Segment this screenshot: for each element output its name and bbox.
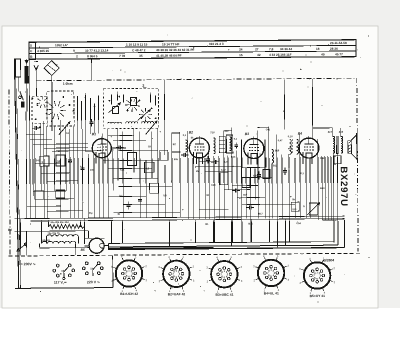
ground bus heavy segment — [109, 247, 214, 250]
RF coil L2 — [56, 155, 65, 166]
svg-text:24: 24 — [239, 47, 243, 51]
mid zone link wires horizontal — [258, 126, 269, 128]
svg-text:B19: B19 — [320, 187, 325, 190]
tube B4 UL41 — [299, 138, 319, 158]
capacitor C24 — [246, 207, 249, 209]
switch wafer SK4 — [45, 102, 48, 105]
resistor R9 — [263, 169, 270, 178]
heater wiring verticals — [19, 218, 21, 255]
svg-text:B4=UL 41: B4=UL 41 — [264, 291, 279, 295]
capacitor C7 — [32, 127, 35, 129]
resistor R5 — [160, 150, 168, 160]
svg-text:BX297U: BX297U — [338, 166, 349, 207]
svg-text:40 38 26 32 36 43 62 31 PF: 40 38 26 32 36 43 62 31 PF — [156, 48, 194, 52]
trimmer capacitor C6 — [81, 165, 83, 168]
inter-box capacitor — [91, 119, 93, 122]
svg-text:4,7k: 4,7k — [224, 161, 229, 164]
scanner background top band — [0, 0, 400, 26]
svg-text:35: 35 — [139, 54, 143, 58]
svg-text:mA: mA — [288, 147, 292, 150]
svg-text:B17: B17 — [258, 212, 263, 215]
svg-text:B2: B2 — [189, 130, 193, 134]
mid zone wires vertical — [198, 158, 200, 219]
svg-text:50μ: 50μ — [88, 212, 93, 215]
IF trim capacitor — [235, 143, 237, 145]
oscillator switch arm 1 — [108, 104, 119, 113]
tube socket view B3 — [211, 261, 238, 288]
svg-text:7 78: 7 78 — [119, 54, 125, 58]
scan speckle noise — [14, 33, 371, 305]
svg-text:B/2804: B/2804 — [323, 258, 334, 262]
wave change switch wafer SK3 — [148, 113, 151, 115]
svg-text:1M: 1M — [206, 194, 209, 197]
scanner background left sliver — [0, 26, 3, 308]
svg-text:71V: 71V — [210, 131, 215, 134]
oscillator box trimmer contacts — [110, 95, 112, 105]
svg-text:23-11-54-58: 23-11-54-58 — [330, 41, 347, 45]
svg-text:2: 2 — [142, 84, 144, 88]
svg-text:343: 343 — [36, 159, 41, 162]
scanner background right band — [378, 0, 400, 308]
svg-text:C43: C43 — [211, 184, 216, 187]
chassis boundary dash-dot left lower — [9, 89, 10, 255]
coupling coil L5 — [185, 140, 187, 152]
svg-text:45 77: 45 77 — [335, 52, 343, 56]
svg-text:C41: C41 — [266, 128, 271, 131]
svg-text:C21: C21 — [120, 169, 125, 172]
svg-text:B3=UBC 41: B3=UBC 41 — [216, 293, 234, 297]
chassis ground dashed line bottom — [9, 253, 361, 256]
tuning capacitor arrow 1 — [59, 122, 70, 135]
capacitor C20 — [211, 161, 214, 163]
svg-text:50k: 50k — [174, 158, 179, 161]
voltage selector switch 1 — [56, 264, 59, 267]
svg-text:4 33 25 166 11F: 4 33 25 166 11F — [269, 53, 292, 57]
svg-text:100: 100 — [90, 169, 95, 172]
svg-text:010 21 2 3: 010 21 2 3 — [209, 42, 224, 46]
svg-text:19 14 TT HF: 19 14 TT HF — [162, 42, 180, 46]
svg-text:49: 49 — [321, 52, 325, 56]
svg-text:34 36 44: 34 36 44 — [280, 47, 292, 51]
svg-text:15: 15 — [239, 53, 243, 57]
HT rail corner wire — [343, 220, 345, 247]
svg-text:1 Øcm: 1 Øcm — [63, 82, 73, 86]
aerial terminal arrow — [35, 67, 37, 96]
ground loop wire inner — [109, 242, 334, 244]
svg-text:B2=UAF 42: B2=UAF 42 — [168, 292, 186, 296]
svg-text:2: 2 — [76, 54, 78, 58]
svg-text:B5: B5 — [81, 248, 85, 252]
mains filter choke L11 — [42, 241, 76, 244]
IF transformer S2 core — [292, 139, 294, 154]
supply bus wire B — [30, 219, 344, 221]
mains section left border wire — [14, 58, 18, 288]
svg-text:0,47: 0,47 — [221, 169, 226, 172]
svg-text:0,47: 0,47 — [278, 139, 283, 142]
capacitor C21 — [232, 190, 235, 192]
capacitor C16 — [127, 202, 129, 205]
wave change switch wafer SK2 — [135, 105, 139, 106]
transformer return wires — [332, 153, 335, 242]
tuning capacitor arrow 2 — [146, 121, 157, 134]
svg-text:30a 30b 30c 30d: 30a 30b 30c 30d — [50, 221, 69, 224]
rod antenna A1 — [15, 59, 20, 77]
oscillator horizontal wires — [108, 134, 134, 136]
tube B2 UAF42 — [189, 138, 209, 158]
capacitor C15 — [139, 197, 141, 200]
tube socket view B2 — [163, 261, 190, 288]
svg-text:0,1V: 0,1V — [288, 135, 293, 138]
svg-text:1352 LA°: 1352 LA° — [55, 43, 69, 47]
capacitor C14 — [181, 154, 184, 156]
oscillator zone wires — [107, 129, 110, 218]
svg-text:117 V ≂: 117 V ≂ — [54, 280, 67, 284]
oscillator switch arm 2 — [138, 110, 150, 120]
svg-text:C50: C50 — [253, 174, 258, 177]
mains selector box right wire — [112, 256, 114, 288]
IF transformer S2 secondary coil — [296, 139, 298, 154]
switch contact dots — [32, 97, 34, 99]
svg-text:516: 516 — [339, 130, 344, 134]
inter-box contact dots — [85, 97, 87, 99]
chassis boundary dash-dot top — [36, 78, 356, 81]
tube B3 UBC41 — [244, 138, 264, 158]
svg-text:4 365 25: 4 365 25 — [37, 49, 49, 53]
oscillator box small rect — [112, 107, 118, 114]
resistor R4 — [150, 183, 159, 193]
svg-text:C52: C52 — [320, 157, 325, 160]
left zone horizontal link wires — [26, 133, 43, 135]
tube socket view B5 — [304, 262, 331, 289]
mains filter choke L10 — [47, 235, 79, 237]
svg-text:B5=UY 41: B5=UY 41 — [310, 294, 325, 298]
capacitor C23 — [284, 167, 286, 170]
IF transformer S1 can B — [226, 135, 233, 153]
volume potentiometer R11 — [309, 203, 317, 215]
B3 screen box left wire — [241, 140, 243, 168]
svg-text:817: 817 — [243, 194, 248, 197]
svg-text:70a 70b 75: 70a 70b 75 — [47, 232, 60, 235]
svg-text:≈ 200V ∿: ≈ 200V ∿ — [21, 262, 37, 266]
svg-text:1b: 1b — [90, 266, 93, 270]
svg-text:41V: 41V — [224, 130, 229, 133]
resistor R8 — [242, 178, 250, 188]
resistor R1 — [35, 190, 44, 199]
left zone wires — [25, 111, 28, 218]
tube B1 UCH42 — [92, 139, 111, 158]
svg-text:18: 18 — [316, 47, 320, 51]
mains input contacts — [17, 243, 27, 251]
capacitor C12 — [116, 147, 119, 149]
HT rail horizontal wire — [322, 219, 344, 221]
svg-text:28 26: 28 26 — [330, 47, 338, 51]
heater link wire to lamp — [40, 247, 89, 249]
capacitor C22 — [258, 172, 260, 175]
svg-text:27: 27 — [255, 47, 259, 51]
oscillator box interior coil B — [126, 122, 138, 124]
transformer top leads — [332, 128, 334, 136]
output transformer S17 primary coil — [333, 136, 335, 153]
voltage selector switch 2 — [85, 262, 88, 265]
RF coil L1 — [40, 156, 49, 166]
ground loop wire outer — [109, 248, 345, 250]
ground loop left end wires — [108, 243, 110, 250]
padder capacitor C5 — [69, 157, 71, 160]
svg-text:B3: B3 — [245, 132, 249, 136]
chassis boundary dash-dot right — [357, 78, 358, 251]
svg-text:41 45,39 46 64 PF: 41 45,39 46 64 PF — [156, 54, 182, 58]
loudspeaker — [348, 141, 352, 154]
oscillator coil unit dashed box — [103, 88, 158, 128]
svg-text:510: 510 — [292, 208, 297, 211]
tube socket view B4 — [258, 260, 285, 287]
oscillator box interior coil A — [108, 122, 122, 123]
tube socket view B1 — [116, 260, 143, 287]
aerial input dashed box — [32, 96, 47, 123]
svg-text:1 10 12 9 11 15: 1 10 12 9 11 15 — [126, 43, 148, 47]
wire header to chassis top — [91, 59, 93, 80]
resistor R3 — [144, 162, 154, 172]
output transformer S16 secondary coil — [341, 136, 343, 153]
B3 screen box right wire — [265, 139, 267, 167]
svg-text:10 77 41,2 13,14: 10 77 41,2 13,14 — [85, 49, 109, 53]
svg-text:B1: B1 — [92, 132, 96, 136]
IF transformer S2 primary coil — [289, 139, 291, 154]
pilot lamp B5 — [89, 238, 104, 253]
antenna series capacitor blob — [24, 66, 28, 84]
svg-text:B1=UCH 42: B1=UCH 42 — [120, 292, 138, 296]
bus drop wires mid — [110, 221, 112, 244]
svg-text:B6: B6 — [8, 228, 12, 232]
supply bus wire A — [14, 216, 344, 219]
mains switch contact upper — [19, 96, 22, 99]
B4 plate wire to top rail — [311, 79, 313, 128]
output transformer core — [335, 136, 337, 154]
svg-text:2M: 2M — [196, 170, 199, 173]
svg-text:7,8: 7,8 — [269, 47, 274, 51]
svg-text:S: S — [30, 43, 32, 47]
mains selector box bottom wire — [15, 287, 113, 290]
svg-text:3,3: 3,3 — [145, 166, 149, 170]
wave change switch wafer SK1 — [61, 109, 66, 111]
ground loop wire middle — [109, 245, 338, 247]
heater dropper resistor — [48, 224, 84, 228]
oscillator coil L4 — [127, 152, 136, 165]
svg-text:C 48 47 2: C 48 47 2 — [132, 48, 146, 52]
resistor R2 — [56, 190, 65, 198]
svg-text:9: 9 — [73, 49, 75, 53]
header parts-list table — [29, 40, 356, 60]
IF transformer S1 can A — [219, 136, 225, 153]
heater junction wires — [14, 230, 88, 233]
oscillator box small rect 2 — [130, 97, 136, 105]
coupling capacitor C10 — [172, 133, 180, 152]
svg-text:8 364 5: 8 364 5 — [87, 54, 98, 58]
svg-text:B16: B16 — [275, 149, 280, 152]
svg-text:C54: C54 — [296, 222, 301, 225]
capacitor C25 — [207, 156, 209, 159]
svg-text:220 V ∿: 220 V ∿ — [87, 280, 101, 284]
output transformer bias resistor — [334, 156, 341, 164]
oscillator box interior coil C — [142, 121, 154, 123]
frame antenna diamond — [44, 61, 59, 76]
svg-text:517: 517 — [328, 130, 333, 134]
svg-text:42: 42 — [257, 53, 261, 57]
page sheet — [2, 26, 378, 308]
detector coil L7 — [272, 149, 274, 163]
RF coil unit dashed box — [47, 91, 74, 126]
resistor R7 — [220, 173, 228, 185]
IF transformer S1 input coil — [214, 138, 216, 154]
resistor R10 — [291, 202, 299, 211]
inter-box wires — [76, 96, 78, 133]
